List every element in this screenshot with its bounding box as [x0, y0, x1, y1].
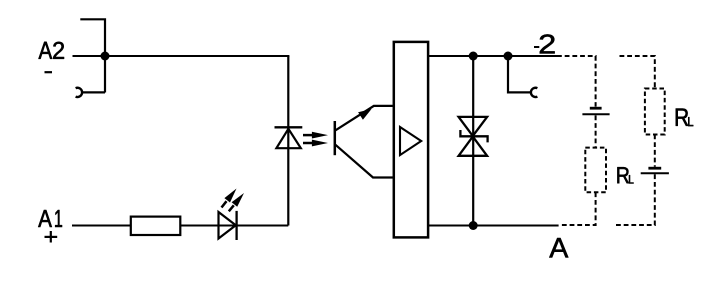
label RL loop1 [617, 167, 633, 183]
dashed wire battery1 to RL1 [595, 115, 597, 147]
terminal label -2 [534, 34, 555, 53]
terminal label A1 [38, 210, 52, 227]
wire TVS branch vertical [472, 56, 474, 226]
load resistor RL loop2 [645, 89, 665, 135]
terminal label A [549, 238, 568, 257]
battery loop2 positive plate [641, 172, 669, 174]
socket contact input [76, 88, 82, 97]
node junction at A2 [101, 52, 110, 61]
wire output socket drop [508, 56, 531, 92]
amplifier block [394, 42, 428, 238]
battery loop2 negative plate [648, 167, 661, 170]
dashed wire external loop2 top [620, 56, 655, 89]
TVS suppressor diode [459, 117, 488, 156]
node junction at TVS bottom [469, 221, 478, 230]
phototransistor [335, 106, 393, 178]
dashed wire RL2 to battery2 [654, 135, 656, 167]
battery loop1 positive plate [582, 113, 609, 115]
dashed wire external loop1 top [557, 56, 596, 107]
wire input socket lead [82, 91, 105, 93]
label RL loop2 [676, 109, 693, 127]
battery loop1 negative plate [590, 107, 602, 110]
LED indicator emission arrows [222, 189, 245, 212]
wire top input rail [105, 55, 289, 57]
dashed wire external loop1 bottom [560, 192, 596, 225]
wire bottom output rail [428, 225, 559, 227]
dashed wire external loop2 bottom [615, 174, 655, 225]
optocoupler LED [275, 127, 303, 148]
buffer triangle [400, 127, 421, 155]
node junction at output socket [504, 52, 513, 61]
resistor (input series) [131, 217, 181, 235]
light emission arrows (opto) [303, 132, 328, 147]
LED indicator [219, 211, 237, 240]
plus polarity mark (A1) [45, 231, 58, 243]
wire top output rail [428, 55, 557, 57]
wire input clamp top branch [80, 19, 105, 92]
load resistor RL loop1 [585, 148, 606, 193]
wire bottom input rail [72, 225, 288, 227]
node junction at TVS top [469, 52, 478, 61]
terminal label A2 [39, 42, 53, 59]
socket contact output [531, 88, 537, 97]
wire A2 lead [73, 55, 106, 57]
minus polarity mark (A2) [45, 71, 53, 73]
wire opto LED branch vertical [287, 56, 289, 226]
